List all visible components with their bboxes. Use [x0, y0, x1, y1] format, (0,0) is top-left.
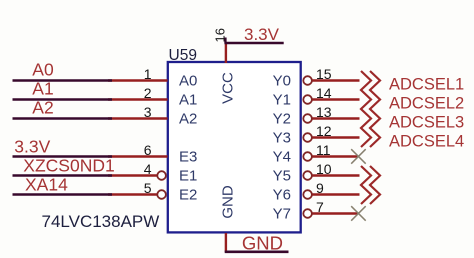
svg-text:GND: GND	[242, 232, 283, 253]
output bubble pin 15	[303, 76, 312, 85]
svg-text:3.3V: 3.3V	[14, 137, 50, 157]
output bubble pin 10	[303, 171, 312, 180]
wire net A1 to pin 2	[108, 98, 168, 100]
wire Y6	[313, 193, 360, 195]
no-connect X on pin 11	[351, 149, 366, 164]
svg-text:Y1: Y1	[273, 92, 291, 109]
power GND wire from pin 8	[225, 233, 227, 252]
wire Y7 no-connect	[313, 212, 358, 214]
svg-text:VCC: VCC	[220, 72, 237, 104]
svg-text:Y7: Y7	[273, 206, 291, 223]
svg-text:A0: A0	[179, 73, 197, 90]
svg-text:GND: GND	[220, 185, 237, 219]
svg-text:ADCSEL1: ADCSEL1	[389, 75, 464, 93]
inverting bubble pin 4	[157, 171, 166, 180]
svg-text:XA14: XA14	[25, 175, 68, 195]
svg-text:U59: U59	[169, 47, 197, 64]
svg-text:Y2: Y2	[273, 111, 291, 128]
svg-text:E1: E1	[179, 168, 197, 185]
wire Y2 to ADCSEL3	[313, 117, 360, 119]
power 3.3V wire to pin 16	[225, 42, 227, 63]
wire Y5	[313, 174, 360, 176]
inverting bubble pin 5	[157, 190, 166, 199]
output bubble pin 14	[303, 95, 312, 104]
svg-text:ADCSEL4: ADCSEL4	[389, 132, 464, 150]
IC U59 body	[168, 62, 301, 232]
svg-text:E3: E3	[179, 149, 197, 166]
svg-text:A2: A2	[32, 98, 53, 118]
svg-text:Y0: Y0	[273, 73, 291, 90]
wire Y3 to ADCSEL4	[313, 136, 360, 138]
svg-text:ADCSEL2: ADCSEL2	[389, 94, 464, 112]
svg-text:A0: A0	[32, 60, 54, 80]
svg-text:74LVC138APW: 74LVC138APW	[42, 212, 160, 231]
svg-text:A1: A1	[179, 92, 197, 109]
wire Y4 no-connect	[313, 155, 358, 157]
output bubble pin 13	[303, 114, 312, 123]
wire net XZCS0ND1 to pin 4	[108, 174, 157, 176]
svg-text:A1: A1	[32, 79, 53, 99]
wire net XA14 to pin 5	[108, 193, 157, 195]
output bubble pin 9	[303, 190, 312, 199]
wire Y0 to ADCSEL1	[313, 79, 360, 81]
output bubble pin 12	[303, 133, 312, 142]
svg-text:Y6: Y6	[273, 187, 291, 204]
power GND bar	[225, 251, 289, 254]
output bubble pin 11	[303, 152, 312, 161]
wire net A2 to pin 3	[108, 117, 168, 119]
wire net 3.3V to pin 6	[108, 155, 168, 157]
power 3.3V bar	[224, 42, 283, 45]
no-connect X on pin 7	[351, 206, 366, 221]
svg-text:3.3V: 3.3V	[244, 25, 280, 44]
svg-text:Y5: Y5	[273, 168, 291, 185]
svg-text:ADCSEL3: ADCSEL3	[389, 113, 464, 131]
off-page connector chevrons Y5-Y6	[361, 166, 371, 204]
wire Y1 to ADCSEL2	[313, 98, 360, 100]
svg-text:E2: E2	[179, 187, 197, 204]
svg-text:Y3: Y3	[273, 130, 291, 147]
svg-text:XZCS0ND1: XZCS0ND1	[23, 156, 114, 176]
output bubble pin 7	[303, 209, 312, 218]
off-page connector chevrons Y0-Y3	[361, 71, 371, 147]
wire net A0 to pin 1	[108, 79, 168, 81]
svg-text:Y4: Y4	[273, 149, 291, 166]
svg-text:A2: A2	[179, 111, 197, 128]
